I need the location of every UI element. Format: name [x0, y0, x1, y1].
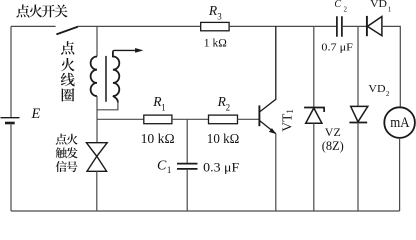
svg-text:C: C: [157, 158, 167, 173]
transistor VT1 base bar: [258, 105, 260, 126]
svg-text:mA: mA: [390, 115, 409, 131]
ignition coil T secondary winding (3 bumps right): [113, 52, 119, 103]
wire: emitter to bottom rail: [275, 134, 277, 212]
switch S ignition switch blade: [56, 27, 78, 35]
wire: VD2 branch from top rail: [357, 26, 359, 106]
wire: top rail R3 to C2: [229, 25, 337, 27]
zener VZ triangle apex-up: [306, 108, 322, 123]
diode VD2 triangle apex-down: [351, 106, 368, 121]
svg-text:1: 1: [167, 165, 172, 175]
wire: top rail left segment: [11, 25, 56, 27]
svg-text:VT: VT: [280, 114, 295, 132]
milliammeter mA circle: [384, 107, 415, 138]
wire: left rail below battery: [10, 123, 12, 211]
svg-text:10 kΩ: 10 kΩ: [207, 131, 240, 146]
wire: VZ branch from top rail: [313, 26, 315, 107]
capacitor C1 plates: [177, 164, 198, 169]
wire: R2 to VT1 base: [238, 118, 259, 120]
svg-text:2: 2: [344, 6, 348, 14]
wire: coil common node down to middle rail and diac: [96, 96, 98, 143]
wire: secondary bottom return: [97, 102, 118, 110]
wire: C1 branch down from node A: [186, 119, 188, 163]
wire: VZ to bottom rail: [313, 123, 315, 211]
svg-text:1: 1: [285, 109, 295, 114]
wire: R1 to R2 through node A: [172, 118, 209, 120]
VT1 collector lead: [260, 26, 276, 111]
label: 点火触发信号 trigger signal: [56, 134, 78, 172]
battery E long thin plate: [1, 117, 20, 119]
resistor R3 box: [201, 22, 229, 30]
svg-text:E: E: [31, 106, 41, 122]
wire: left rail above battery E: [10, 26, 12, 117]
coil core line: [105, 56, 107, 102]
label: 点火开关 ignition switch: [16, 4, 67, 17]
svg-text:C: C: [334, 0, 341, 10]
svg-text:3: 3: [217, 12, 222, 22]
svg-text:(8Z): (8Z): [322, 139, 344, 153]
capacitor C2 plates: [337, 16, 342, 36]
svg-text:0.3 μF: 0.3 μF: [203, 159, 239, 174]
diode VD1 cathode bar: [366, 16, 368, 36]
wire: meter to bottom rail: [399, 138, 401, 211]
diode VD1 triangle apex-left: [367, 17, 382, 36]
resistor R2 box: [209, 115, 238, 124]
zener VZ cathode bar with right tick down: [304, 108, 324, 113]
wire: VD1 to top-right corner down to meter: [382, 26, 400, 107]
wire: top rail switch to R3: [78, 25, 201, 27]
wire: C1 to bottom rail: [186, 169, 188, 211]
svg-text:0.7 μF: 0.7 μF: [321, 41, 353, 53]
wire: diac to bottom rail: [96, 171, 98, 211]
svg-text:VD: VD: [368, 83, 385, 95]
VT1 emitter lead with arrow: [260, 121, 276, 134]
wire: C2 to VD1: [342, 25, 367, 27]
trigger diac lower triangle: [87, 156, 107, 171]
svg-text:10 kΩ: 10 kΩ: [141, 131, 175, 146]
wire: VD2 to bottom rail: [357, 123, 359, 212]
resistor R1 box: [144, 115, 172, 124]
wire: bottom rail: [11, 210, 400, 212]
secondary HV output line with arrowhead: [113, 50, 139, 51]
svg-text:1 kΩ: 1 kΩ: [204, 38, 227, 50]
svg-text:2: 2: [386, 90, 390, 98]
diode VD2 cathode bar: [349, 122, 367, 124]
wire: middle rail from coil node to R1: [97, 118, 144, 120]
svg-text:VD: VD: [370, 0, 387, 10]
svg-text:1: 1: [388, 5, 392, 13]
svg-text:1: 1: [161, 102, 166, 112]
trigger diac upper triangle: [86, 143, 107, 157]
ignition coil T primary winding (3 bumps left): [91, 57, 97, 97]
svg-text:2: 2: [226, 103, 231, 113]
label: 点火线圈 ignition coil (vertical): [61, 41, 75, 101]
svg-text:VZ: VZ: [325, 127, 341, 139]
battery E short thick plate: [5, 122, 15, 125]
wire: drop from top rail to coil primary: [96, 26, 98, 56]
